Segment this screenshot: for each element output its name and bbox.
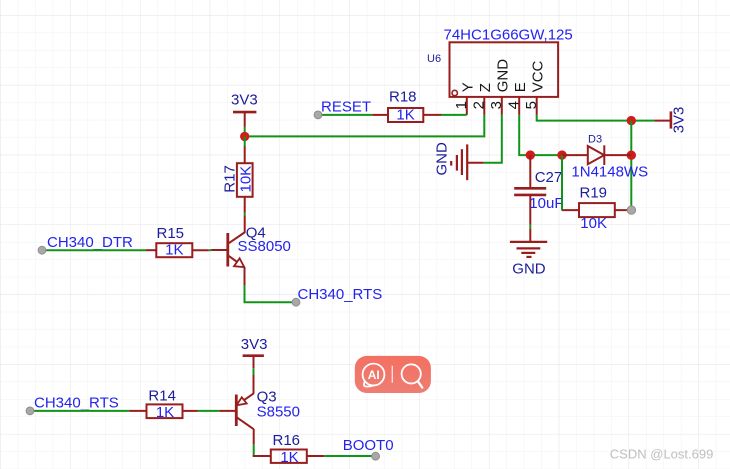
node junction 3V3 rail (240, 132, 249, 141)
svg-text:3V3: 3V3 (670, 107, 687, 134)
svg-text:E: E (512, 82, 529, 92)
svg-text:3V3: 3V3 (241, 336, 268, 353)
svg-text:SS8050: SS8050 (238, 238, 291, 255)
ground GND at U6 pin 3 (451, 144, 484, 180)
node junction D3 cathode (627, 151, 636, 160)
wire R14 to Q3 base (198, 410, 219, 412)
wire U6 pin 3 to GND (484, 115, 502, 163)
wire U6 pin 5 to 3V3 right (537, 115, 655, 121)
svg-text:CH340_DTR: CH340_DTR (47, 234, 133, 251)
svg-text:R16: R16 (273, 432, 301, 449)
wire junction to R17 (244, 136, 246, 146)
wire Q4 emitter to CH340_RTS (245, 285, 296, 302)
wire CH340_DTR to R15 (42, 249, 146, 251)
transistor Q4 SS8050 (211, 216, 245, 286)
resistor R18 (372, 108, 441, 122)
svg-text:10K: 10K (237, 166, 254, 193)
svg-text:1K: 1K (396, 106, 414, 123)
svg-text:GND: GND (434, 142, 451, 176)
power flag 3V3 top left (233, 112, 256, 127)
wire CH340_RTS to R14 (30, 410, 129, 412)
svg-text:C27: C27 (535, 169, 563, 186)
svg-text:S8550: S8550 (257, 404, 300, 421)
node junction D3 anode (557, 150, 566, 159)
svg-text:4: 4 (505, 101, 522, 109)
svg-text:2: 2 (470, 101, 487, 109)
svg-text:R14: R14 (148, 387, 176, 404)
svg-text:GND: GND (495, 59, 512, 92)
IC U6 body (450, 42, 559, 97)
svg-text:1N4148WS: 1N4148WS (571, 163, 648, 180)
capacitor C27 (514, 155, 546, 225)
svg-text:VCC: VCC (530, 60, 547, 92)
U6 pin 3 (GND) (501, 97, 503, 115)
resistor R14 (129, 404, 198, 418)
svg-text:R18: R18 (389, 89, 417, 106)
svg-text:GND: GND (512, 260, 546, 277)
svg-text:RESET: RESET (321, 99, 371, 116)
node CH340_RTS endpoint (292, 298, 300, 306)
resistor R17 (237, 146, 253, 212)
svg-text:3V3: 3V3 (231, 92, 258, 109)
U6 pin 1 (Y) (466, 97, 468, 115)
wire Q3 collector to R16 (253, 444, 255, 456)
svg-text:R17: R17 (222, 165, 239, 193)
node CH340_DTR endpoint (38, 246, 46, 254)
svg-text:1K: 1K (156, 404, 174, 421)
transistor Q3 S8550 (219, 375, 254, 445)
resistor R19 (562, 203, 632, 217)
svg-text:74HC1G66GW,125: 74HC1G66GW,125 (444, 27, 573, 44)
node RESET endpoint (314, 111, 322, 119)
svg-text:D3: D3 (588, 134, 602, 146)
node CH340_RTS lower endpoint (26, 407, 34, 415)
wire R15 to Q4 base (209, 249, 212, 251)
svg-text:10K: 10K (580, 215, 607, 232)
svg-text:BOOT0: BOOT0 (343, 437, 394, 454)
resistor R15 (146, 243, 209, 257)
node R19 right endpoint (627, 206, 635, 214)
node junction VCC rail (627, 116, 636, 125)
node junction C27 (526, 150, 535, 159)
wire D3 anode junction down to R19 (561, 155, 563, 210)
wire 3V3 to Q3 emitter (253, 368, 255, 374)
U6 pin 4 (E) (518, 97, 520, 115)
svg-text:CSDN @Lost.699: CSDN @Lost.699 (610, 446, 714, 461)
svg-text:3: 3 (488, 101, 505, 109)
wire R16 to BOOT0 (324, 455, 375, 457)
svg-text:AI: AI (368, 368, 380, 382)
ground GND below C27 (510, 229, 547, 257)
wire RESET to R18 (318, 114, 372, 116)
svg-text:1: 1 (453, 101, 470, 109)
wire R17 to Q4 collector (244, 213, 246, 216)
svg-text:Z: Z (477, 83, 494, 92)
AI assistant badge (355, 356, 431, 393)
svg-text:CH340_RTS: CH340_RTS (298, 286, 383, 303)
svg-text:R19: R19 (580, 184, 608, 201)
wire 3V3 stem to junction (244, 127, 246, 137)
power flag 3V3 at Q3 (243, 356, 264, 369)
svg-text:1K: 1K (280, 449, 298, 466)
svg-text:Y: Y (460, 82, 477, 92)
wire R18 to U6 pin 1 (442, 114, 467, 116)
svg-text:R15: R15 (157, 225, 185, 242)
node BOOT0 endpoint (372, 452, 380, 460)
svg-text:1K: 1K (165, 242, 183, 259)
U6 pin 2 (Z) (483, 97, 485, 115)
resistor R16 (253, 450, 325, 463)
svg-text:10uF: 10uF (529, 195, 563, 212)
wire VCC rail down to D3 cathode and R19 (630, 121, 632, 211)
wire 3V3 rail to U6 pin 2 (245, 115, 485, 136)
svg-text:CH340_RTS: CH340_RTS (34, 395, 119, 412)
U6 pin 5 (VCC) (536, 97, 538, 115)
diode D3 1N4148WS (562, 145, 631, 165)
wire C27 to GND (529, 225, 531, 229)
power flag 3V3 right (654, 111, 671, 128)
svg-text:5: 5 (523, 101, 540, 109)
svg-text:U6: U6 (427, 53, 441, 65)
wire U6 pin 4 to C27/D3 node (519, 115, 562, 155)
